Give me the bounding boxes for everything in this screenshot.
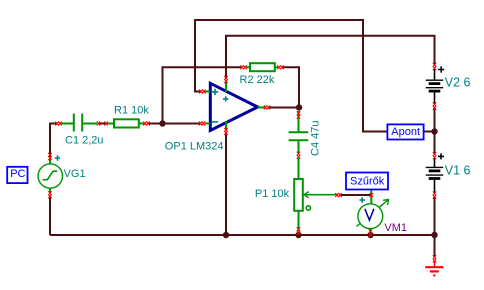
voltmeter VM1 [356, 189, 388, 237]
V2 plus sign [438, 66, 444, 72]
junction: P1 bottom on bottom rail [295, 232, 301, 238]
pin marks V2 [433, 63, 436, 70]
junction: battery midpoint (A point) [431, 128, 437, 134]
wire: opamp output to output node [268, 107, 299, 109]
potentiometer P1 [294, 157, 337, 231]
ground [425, 260, 443, 271]
svg-text:P1 10k: P1 10k [255, 188, 290, 200]
node Apont box [387, 124, 423, 139]
wire: feedback from inverting node up and right to R2 left [163, 67, 242, 123]
svg-text:R2 22k: R2 22k [240, 74, 275, 86]
svg-text:VM1: VM1 [384, 222, 407, 234]
wire: VG1 bottom down to bottom rail [49, 196, 51, 235]
battery V1 [426, 158, 443, 193]
wire: Apont right to battery midpoint junction [424, 131, 435, 133]
V1 plus sign [438, 153, 444, 159]
junction: ground on bottom rail [431, 232, 437, 238]
VM1 plus marker [359, 197, 365, 203]
resistor R1 [107, 119, 145, 127]
junction: inverting input node [159, 120, 165, 126]
svg-text:V2 6: V2 6 [445, 76, 471, 90]
svg-text:OP1 LM324: OP1 LM324 [165, 140, 224, 152]
pin marks P1 [335, 193, 341, 197]
node Szűrők box [346, 173, 388, 190]
op-amp OP1 [199, 76, 270, 135]
capacitor C4 [289, 111, 309, 153]
resistor R2 [246, 63, 278, 71]
junction: output node [296, 104, 302, 110]
wire: V1 bottom to bottom rail [434, 196, 436, 235]
pin marks C1 [55, 122, 61, 126]
svg-text:R1 10k: R1 10k [114, 105, 149, 117]
svg-text:C1 2,2u: C1 2,2u [65, 134, 104, 146]
wire: C1 right to R1 left [99, 123, 106, 125]
wire: opamp V+ pin up and right to V2 top (inner top loop) [226, 36, 435, 79]
svg-text:Apont: Apont [391, 126, 420, 138]
svg-text:PC: PC [10, 168, 25, 180]
pin marks V1 [433, 152, 436, 159]
wire: opamp V- pin down to bottom rail [225, 133, 227, 235]
wire: VG1 top to C1 left [50, 124, 57, 158]
wire: bottom ground rail [50, 234, 435, 236]
generator VG1 [38, 153, 62, 199]
wire: R1 right to opamp inverting input (node with feedback) [148, 123, 200, 125]
pin marks R1 [104, 122, 107, 126]
pin marks VG1 [48, 153, 51, 160]
capacitor C1 [61, 114, 97, 132]
wire: P1 wiper to VM1 plus node [340, 194, 371, 196]
opamp +/- markers [212, 89, 229, 122]
svg-text:VG1: VG1 [64, 168, 86, 180]
svg-text:Szűrők: Szűrők [350, 176, 385, 188]
junction: VM1 bottom on bottom rail [367, 232, 373, 238]
wire: ground rail junction down to ground symbol [434, 235, 436, 258]
pin marks C4 [297, 111, 300, 118]
svg-text:V1 6: V1 6 [445, 164, 471, 178]
battery V2 [426, 69, 443, 104]
node PC box [7, 167, 27, 183]
junction: opamp V- on bottom rail [223, 232, 229, 238]
wire: V2 bottom to midpoint junction to V1 top [434, 107, 436, 154]
pin marks R2 [240, 65, 246, 69]
VG1 plus marker [55, 155, 60, 160]
opamp input leads [205, 81, 266, 131]
pin marks VM1 [370, 193, 373, 197]
svg-text:C4 47u: C4 47u [310, 121, 322, 156]
pin mark ground [433, 255, 436, 262]
wire: R2 right to output node [282, 67, 299, 107]
opamp pin marks [199, 90, 205, 94]
wire: noninverting input up and over to Apont (outer top loop) [195, 20, 387, 132]
